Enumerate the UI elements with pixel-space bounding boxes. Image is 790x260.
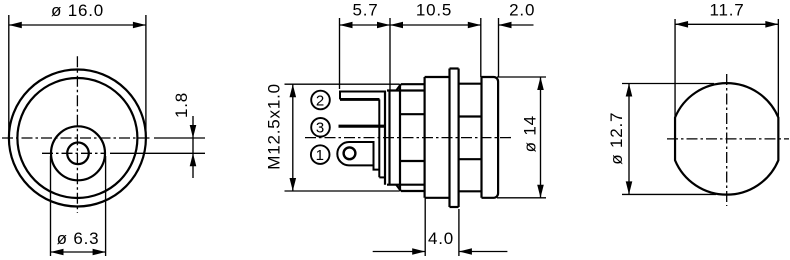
svg-text:4.0: 4.0 xyxy=(428,229,454,248)
svg-text:ø 12.7: ø 12.7 xyxy=(607,112,626,165)
svg-text:ø 16.0: ø 16.0 xyxy=(51,1,104,20)
svg-text:5.7: 5.7 xyxy=(352,1,378,20)
svg-text:3: 3 xyxy=(316,120,325,137)
svg-text:ø 14: ø 14 xyxy=(520,115,539,152)
svg-text:1: 1 xyxy=(316,147,325,164)
svg-text:M12.5x1.0: M12.5x1.0 xyxy=(264,83,283,170)
svg-text:10.5: 10.5 xyxy=(416,1,452,20)
svg-text:2: 2 xyxy=(316,92,325,109)
svg-text:1.8: 1.8 xyxy=(172,92,191,118)
svg-text:2.0: 2.0 xyxy=(509,1,535,20)
svg-text:11.7: 11.7 xyxy=(709,1,744,20)
svg-text:ø 6.3: ø 6.3 xyxy=(57,229,100,248)
